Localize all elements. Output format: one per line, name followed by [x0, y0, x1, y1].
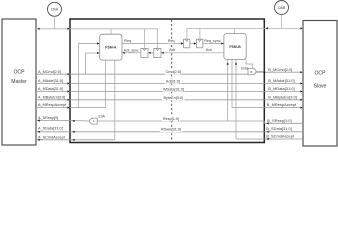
- svg-text:ClkA: ClkA: [51, 8, 59, 12]
- arrow MByteEn[3:0] into bridge: [67, 99, 69, 101]
- svg-text:Req: Req: [168, 39, 175, 43]
- wire A_SResp[1:0]: [36, 120, 70, 122]
- wire EnB from FSM-B: [245, 59, 247, 64]
- svg-text:A: A: [93, 119, 95, 123]
- arrow MAddr[31:0] into slave: [300, 82, 302, 84]
- wire MByteEn[3:0] rail: [36, 99, 264, 101]
- wire Ack_sync FF A1 to FSM-A: [123, 52, 141, 54]
- svg-text:Ack: Ack: [206, 48, 212, 52]
- arrow RData leaving bridge: [72, 131, 74, 133]
- svg-text:A_SData[31:0]: A_SData[31:0]: [38, 127, 63, 131]
- svg-text:RData[31:0]: RData[31:0]: [161, 128, 181, 132]
- bridge (middle) box: [70, 19, 264, 143]
- wire ClkA trunk: [36, 28, 158, 30]
- arrow Req into FF B1: [181, 42, 183, 44]
- label Ad[31:0] bus: [165, 79, 182, 84]
- sync FF A2 (Ack, ClkA): [154, 48, 161, 57]
- label Cmd[2:0] bus: [165, 70, 182, 75]
- svg-text:Req: Req: [124, 39, 131, 43]
- arrow ClkA into master: [37, 28, 39, 30]
- wire MRespAccept tap to FSM-A left input: [78, 44, 80, 108]
- label Req (domain boundary): [167, 39, 174, 44]
- arrow MData[31:0] into bridge: [67, 90, 69, 92]
- svg-text:Req_sync: Req_sync: [204, 39, 221, 43]
- label ByteEn[3:0] bus: [162, 96, 185, 101]
- svg-text:B: B: [251, 70, 253, 74]
- wire SData rail: [36, 131, 264, 133]
- wire MCmd[2:0] rail: [36, 73, 248, 75]
- wire ClkB to sync FF B2 clock: [199, 28, 201, 39]
- label Ack (domain boundary): [169, 48, 176, 53]
- clock source ClkB: [275, 1, 289, 15]
- svg-text:B_SResp[1:0]: B_SResp[1:0]: [267, 118, 291, 123]
- sync FF A1 (Ack, ClkA): [141, 48, 148, 57]
- arrow A_SResp leaving bridge: [72, 120, 74, 122]
- OCP Master box: [2, 19, 36, 145]
- svg-text:A_MAddr[31:0]: A_MAddr[31:0]: [38, 79, 63, 83]
- svg-text:Ack_sync: Ack_sync: [124, 48, 139, 52]
- wire ClkA to sync FF A2 clock: [156, 29, 158, 49]
- svg-text:B_SCmdAccept: B_SCmdAccept: [266, 134, 295, 139]
- svg-text:WData[31:0]: WData[31:0]: [163, 87, 184, 91]
- sync FF B1 (Req, ClkB): [184, 39, 190, 48]
- svg-text:A_SResp[0]: A_SResp[0]: [38, 116, 58, 120]
- FSM-A block: [100, 34, 122, 60]
- wire A_SCmdAccept: [36, 139, 115, 141]
- arrow ClkA into bridge: [67, 28, 69, 30]
- label RData[31:0] bus: [160, 127, 183, 132]
- wire ClkA to sync FF A1 clock: [144, 29, 146, 49]
- wire B_MRespAccept: [232, 107, 303, 109]
- arrow A_MRespAccept into bridge: [67, 107, 69, 109]
- arrow MByteEn[3:0] into slave: [300, 99, 302, 101]
- svg-text:FSM-A: FSM-A: [105, 46, 117, 50]
- svg-text:OCP: OCP: [314, 71, 326, 77]
- wire MAddr[31:0] rail: [36, 83, 264, 85]
- arrow B_SData into bridge: [266, 131, 268, 133]
- svg-text:Master: Master: [11, 79, 27, 85]
- wire ClkA drop: [54, 16, 56, 29]
- wire MCmd tap to FSM-A left input: [84, 53, 86, 74]
- svg-text:ClkB: ClkB: [278, 6, 286, 10]
- wire EnB gate output: [256, 71, 265, 73]
- svg-text:B_MData[31:0]: B_MData[31:0]: [268, 86, 294, 91]
- wire Ack FF A2 to FF A1: [149, 52, 154, 54]
- svg-text:A_MCmd[2:0]: A_MCmd[2:0]: [38, 70, 61, 74]
- arrow into FSM-B bottom right: [235, 62, 237, 64]
- wire Req_sync FF B2 to FSM-B: [203, 43, 224, 45]
- arrow into FSM-B bottom left: [227, 62, 229, 64]
- svg-text:Slave: Slave: [314, 84, 327, 90]
- wire FSM-B to Resp rail: [227, 59, 229, 121]
- FSM-B block: [224, 34, 246, 60]
- label WData[31:0] bus: [162, 87, 185, 92]
- svg-text:EnA: EnA: [99, 114, 106, 118]
- svg-text:B_SData[31:0]: B_SData[31:0]: [266, 126, 292, 131]
- svg-text:Cmd[2:0]: Cmd[2:0]: [166, 70, 181, 74]
- arrow A_SCmdAccept into master: [37, 139, 39, 141]
- arrow A_SResp into master: [37, 119, 39, 121]
- arrow B_SResp into bridge: [266, 122, 268, 124]
- arrow Ack into FF A2: [161, 52, 163, 54]
- sync FF B2 (Req, ClkB): [197, 39, 203, 48]
- wire FSM-A to MRespAccept rail: [105, 60, 107, 108]
- clock-domain boundary (dashed): [171, 20, 173, 142]
- arrow into FSM-A left upper: [97, 42, 99, 44]
- clock source ClkA: [48, 2, 62, 16]
- svg-text:A_MData[31:0]: A_MData[31:0]: [38, 87, 63, 91]
- wire Req FSM-A to FF B1: [122, 43, 183, 45]
- wire ClkB drop: [281, 15, 283, 29]
- label Resp[1:0] bus: [162, 117, 181, 122]
- svg-text:A_MByteEn[3:0]: A_MByteEn[3:0]: [38, 95, 65, 99]
- svg-text:OCP: OCP: [13, 70, 25, 76]
- arrow ClkB into bridge: [266, 27, 268, 29]
- gate EnB U2: [248, 68, 256, 75]
- junction EnB output: [263, 71, 265, 73]
- wire ClkB to FSM-B clock: [234, 28, 236, 33]
- wire MData[31:0] rail: [36, 91, 264, 93]
- wire Ack FSM-B to FF A2: [162, 52, 224, 54]
- arrow Ack_sync into FSM-A: [122, 52, 124, 54]
- arrow Ack into FF A1: [148, 52, 150, 54]
- wire ClkB to sync FF B1 clock: [186, 28, 188, 39]
- arrow Req into FF B2: [194, 42, 196, 44]
- wire FSM-B to MRespAccept rail: [231, 59, 233, 107]
- OCP Slave box: [303, 21, 337, 147]
- svg-text:Ad[31:0]: Ad[31:0]: [166, 79, 180, 83]
- arrow MCmd[2:0] into bridge: [67, 73, 69, 75]
- wire FSM-B to SCmdAccept rail: [235, 59, 237, 139]
- svg-text:EnB: EnB: [241, 67, 248, 71]
- wire ClkA to FSM-A clock: [110, 29, 112, 34]
- arrow A_SCmdAccept leaving bridge: [72, 139, 74, 141]
- arrow ClkB into slave: [300, 27, 302, 29]
- arrow Req_sync into FSM-B: [221, 42, 223, 44]
- arrow into FSM-A left lower: [97, 52, 99, 54]
- svg-text:FSM-B: FSM-B: [229, 45, 241, 49]
- arrow MCmd[2:0] into slave: [300, 71, 302, 73]
- arrow B_MRespAccept into slave: [300, 107, 302, 109]
- wire EnA / SCmdAccept drop: [114, 60, 116, 140]
- arrow MAddr[31:0] into bridge: [67, 82, 69, 84]
- arrow B_SCmdAccept into bridge: [266, 138, 268, 140]
- arrow A_SData into master: [37, 131, 39, 133]
- arrow MData[31:0] into slave: [300, 90, 302, 92]
- gate EnA U1: [90, 118, 98, 124]
- wire ClkB trunk: [187, 27, 303, 29]
- wire B_SCmdAccept: [235, 137, 237, 139]
- svg-text:B_MByteEn[3:0]: B_MByteEn[3:0]: [268, 94, 296, 99]
- wire Resp internal: [97, 120, 264, 122]
- wire A_MRespAccept: [36, 107, 106, 109]
- wire Req FF B1 to FF B2: [190, 43, 196, 45]
- svg-text:B_MAddr[31:0]: B_MAddr[31:0]: [268, 78, 294, 83]
- svg-text:Ack: Ack: [169, 48, 175, 52]
- svg-text:B_MRespAccept: B_MRespAccept: [267, 102, 297, 107]
- wire B_SResp[1:0]: [264, 122, 303, 124]
- svg-text:A_MRespAccept: A_MRespAccept: [38, 103, 67, 107]
- svg-text:A_SCmdAccept: A_SCmdAccept: [38, 135, 66, 139]
- svg-text:Resp[1:0]: Resp[1:0]: [163, 117, 179, 121]
- svg-text:B_MCmd[2:0]: B_MCmd[2:0]: [268, 67, 292, 72]
- svg-text:ByteEn[3:0]: ByteEn[3:0]: [163, 96, 183, 100]
